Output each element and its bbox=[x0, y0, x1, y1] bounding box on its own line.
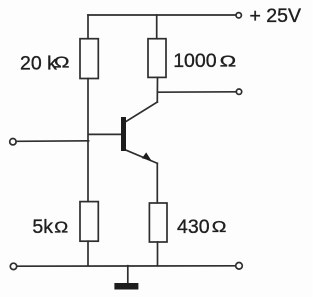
ground stem bbox=[127, 266, 129, 284]
ground bar bbox=[114, 283, 138, 290]
svg-text:5k: 5k bbox=[32, 216, 53, 238]
wire: input terminal to left rail bbox=[16, 140, 88, 143]
resistor 20kΩ body bbox=[80, 39, 98, 79]
resistor 1000Ω body bbox=[148, 39, 166, 78]
svg-text:Ω: Ω bbox=[54, 218, 68, 236]
svg-text:+ 25V: + 25V bbox=[250, 5, 302, 27]
wire: top rail to 20k resistor bbox=[87, 15, 89, 39]
svg-text:Ω: Ω bbox=[220, 53, 237, 70]
svg-text:Ω: Ω bbox=[54, 53, 70, 71]
terminal: bottom left bbox=[10, 263, 16, 269]
svg-text:1000: 1000 bbox=[173, 50, 217, 72]
transistor Q1 base bar bbox=[121, 117, 126, 151]
terminal: output bbox=[236, 89, 241, 94]
wire: bottom rail bbox=[17, 265, 236, 267]
transistor Q1 emitter arrow bbox=[142, 152, 152, 160]
terminal: +25V supply bbox=[236, 13, 241, 18]
wire: left rail between 20k and 5k resistors bbox=[87, 79, 89, 202]
svg-text:20 k: 20 k bbox=[20, 52, 57, 74]
wire: 5k resistor to bottom rail bbox=[87, 241, 89, 266]
wire: 430 ohm resistor to bottom rail bbox=[157, 242, 159, 266]
wire: top rail to 1000 ohm resistor bbox=[156, 15, 158, 39]
wire: base of transistor bbox=[89, 133, 122, 135]
wire: +25V top rail bbox=[88, 14, 236, 16]
transistor: collector lead bbox=[126, 102, 157, 122]
svg-text:430: 430 bbox=[177, 216, 210, 238]
wire: 1000 ohm resistor to collector node bbox=[156, 77, 158, 102]
resistor 430Ω body bbox=[149, 203, 167, 242]
resistor 5kΩ body bbox=[80, 202, 98, 242]
terminal: bottom right bbox=[236, 263, 243, 270]
wire: emitter to 430 ohm resistor bbox=[156, 163, 158, 203]
terminal: input bbox=[10, 139, 16, 145]
transistor: emitter lead bbox=[125, 150, 158, 164]
svg-text:Ω: Ω bbox=[212, 218, 227, 236]
wire: output line bbox=[158, 91, 237, 93]
